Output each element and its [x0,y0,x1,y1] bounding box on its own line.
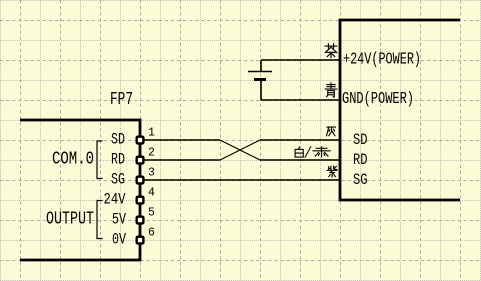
pin 1 terminal [137,137,144,144]
wire RD pin2 to box SD (crossover) [144,159,220,161]
wire color label bai/aka (white/red) [295,147,303,157]
svg-text:OUTPUT: OUTPUT [46,209,94,230]
wire GND from battery to right box [261,99,340,101]
svg-text:COM.0: COM.0 [52,149,94,170]
svg-text:24V: 24V [104,191,126,209]
svg-text:4: 4 [148,187,155,200]
wire color label murasaki (purple) [327,166,337,177]
svg-text:5V: 5V [112,211,126,229]
svg-text:SD: SD [353,131,368,149]
svg-text:RD: RD [111,151,125,169]
wire color label hui (gray) [327,127,336,136]
svg-text:GND(POWER): GND(POWER) [342,90,414,109]
battery B1 [260,60,262,72]
wire +24V from battery to right box [261,59,340,61]
pin 4 terminal [137,197,144,204]
svg-text:RD: RD [353,151,368,169]
svg-text:SD: SD [111,131,125,149]
svg-text:2: 2 [148,147,155,160]
svg-text:SG: SG [111,171,125,189]
left PLC box FP7 outline [20,120,140,260]
svg-text:SG: SG [353,171,368,189]
pin 6 terminal [137,237,144,244]
bracket for OUTPUT group [97,201,103,239]
svg-text:3: 3 [148,167,155,180]
wire SD pin1 to box RD (crossover) [144,139,220,141]
pin 2 terminal [137,157,144,164]
svg-text:FP7: FP7 [110,89,133,110]
svg-text:0V: 0V [112,231,126,249]
svg-text:5: 5 [148,207,155,220]
wire color label cha (brown) [325,44,337,58]
wire SG pin3 to box SG [144,179,340,181]
svg-text:+24V(POWER): +24V(POWER) [343,51,421,70]
right device box outline [340,20,460,200]
pin 5 terminal [137,217,144,224]
wire color label qing (blue) [325,83,337,97]
pin 3 terminal [137,177,144,184]
svg-text:1: 1 [148,127,155,140]
svg-text:6: 6 [148,227,155,240]
bracket for COM.0 group [97,141,103,179]
